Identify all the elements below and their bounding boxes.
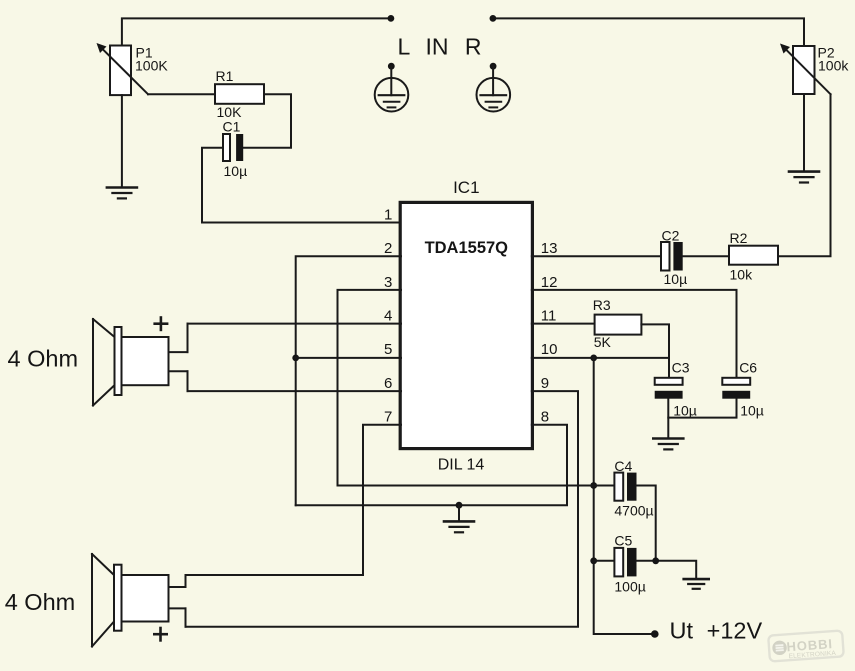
wire P1 wiper to R1 (148, 93, 215, 95)
wire pin 5 (296, 357, 401, 359)
svg-text:4: 4 (384, 308, 392, 325)
IC U1 TDA1557Q body (400, 202, 532, 448)
potentiometer P1 (97, 43, 149, 95)
wire junction rail down to Ut (594, 358, 655, 634)
wire pin 13 to C2 (532, 255, 661, 257)
svg-text:10µ: 10µ (224, 163, 248, 179)
wire pin 10 (532, 357, 669, 359)
resistor R1 (215, 84, 264, 104)
svg-text:10µ: 10µ (664, 271, 688, 287)
node supply rail / C5 wire junction (590, 557, 597, 564)
wire top rail right (R node to P2 top) (493, 18, 804, 46)
svg-text:4 Ohm: 4 Ohm (5, 589, 76, 615)
wire pin 8 down and left to pin 2 rail (296, 425, 567, 506)
wire C4 right down to C5 level (637, 486, 656, 561)
svg-text:10: 10 (541, 341, 558, 358)
node pin 10 junction (590, 355, 597, 362)
wire P1 bottom (121, 95, 123, 186)
speaker LS1 (4 Ohm top) (93, 319, 188, 406)
capacitor C3 (655, 378, 683, 399)
capacitor C6 (722, 378, 750, 399)
ground (below C5) (684, 579, 709, 589)
node Ut terminal dot (651, 630, 659, 638)
svg-text:DIL 14: DIL 14 (438, 456, 485, 473)
connector L (input socket) (375, 63, 409, 112)
svg-text:R2: R2 (730, 230, 748, 246)
capacitor C1 (223, 134, 243, 161)
wire ground stub (458, 505, 460, 520)
svg-text:+12V: +12V (707, 617, 763, 643)
svg-text:10K: 10K (217, 104, 243, 120)
svg-text:C4: C4 (614, 458, 632, 474)
node C4/C5 right junction (652, 557, 659, 564)
svg-text:10k: 10k (730, 266, 754, 282)
svg-text:IC1: IC1 (453, 178, 479, 197)
wire C1 left to IC pin 1 (202, 148, 401, 223)
svg-text:10µ: 10µ (673, 402, 697, 418)
node supply rail / C4 wire junction (590, 482, 597, 489)
wire R1 right down to C1 (243, 94, 291, 148)
wire C3 bottom to ground (667, 399, 669, 438)
capacitor C2 (661, 242, 683, 271)
wire pin 4 (188, 323, 402, 325)
svg-text:C6: C6 (739, 359, 757, 375)
svg-text:1: 1 (384, 206, 392, 223)
svg-text:13: 13 (541, 240, 558, 257)
node R input dot (490, 15, 497, 22)
svg-text:TDA1557Q: TDA1557Q (425, 239, 509, 257)
svg-text:4 Ohm: 4 Ohm (8, 345, 79, 371)
wire P2 wiper down to R2 (778, 94, 831, 256)
svg-text:10µ: 10µ (740, 402, 764, 418)
ground (below C3) (653, 439, 683, 450)
svg-text:3: 3 (384, 274, 392, 291)
capacitor C4 (614, 473, 636, 501)
svg-text:6: 6 (384, 375, 392, 392)
wire C5 right to ground (637, 561, 697, 578)
ground (P1) (107, 188, 137, 199)
potentiometer P2 (780, 44, 831, 95)
svg-text:100k: 100k (818, 58, 849, 74)
resistor R3 (595, 315, 642, 335)
capacitor C5 (614, 548, 636, 577)
svg-text:4700µ: 4700µ (614, 502, 653, 518)
svg-text:IN: IN (426, 34, 449, 60)
svg-text:5K: 5K (594, 334, 612, 350)
wire C6 bottom to C3 bottom (668, 399, 736, 418)
wire pin 7 down to speaker 2 (186, 425, 402, 587)
svg-text:100K: 100K (135, 58, 168, 74)
svg-text:C5: C5 (614, 533, 632, 549)
node pin2/pin5 junction (292, 355, 299, 362)
svg-text:R: R (465, 34, 482, 60)
wire pin 6 (188, 390, 402, 392)
connector R (input socket) (477, 63, 511, 112)
svg-text:C2: C2 (662, 227, 680, 243)
svg-text:C1: C1 (223, 119, 241, 135)
wire pin 3 left and down (338, 290, 402, 486)
wire top rail left (P1 top to L node) (122, 18, 391, 45)
wire C5 left stub (594, 560, 615, 562)
svg-text:5: 5 (384, 341, 392, 358)
wire C2 to R2 (683, 255, 729, 257)
svg-text:C3: C3 (672, 359, 690, 375)
svg-text:R3: R3 (593, 297, 611, 313)
node ground stub on pin8 rail (456, 502, 463, 509)
wire P2 bottom (803, 94, 805, 171)
wire pin 11 to R3 (532, 323, 595, 325)
wire pin 9 down to speaker 2 bottom (186, 391, 579, 627)
wire pin 12 to C6 (532, 290, 737, 378)
ground (P2) (789, 172, 819, 183)
plus mark (LS2) (154, 628, 166, 640)
plus mark (LS1) (155, 318, 167, 330)
svg-text:100µ: 100µ (614, 578, 645, 594)
svg-text:12: 12 (541, 274, 558, 291)
svg-text:7: 7 (384, 409, 392, 426)
ground (below IC) (444, 521, 474, 532)
wire pin3 rail to C4 (338, 485, 615, 487)
svg-text:Ut: Ut (670, 617, 694, 643)
svg-text:8: 8 (541, 409, 549, 426)
svg-text:11: 11 (541, 308, 557, 325)
svg-text:L: L (398, 34, 411, 60)
resistor R2 (729, 246, 778, 265)
svg-text:2: 2 (384, 240, 392, 257)
watermark logo HOBBI Elektronika (768, 630, 844, 661)
speaker LS2 (4 Ohm bottom) (92, 554, 186, 647)
wire R3 right down to C3 (641, 324, 669, 377)
svg-text:R1: R1 (216, 68, 234, 84)
wire pin 2 left and down (296, 256, 401, 505)
node L input dot (388, 15, 395, 22)
svg-text:9: 9 (541, 375, 549, 392)
